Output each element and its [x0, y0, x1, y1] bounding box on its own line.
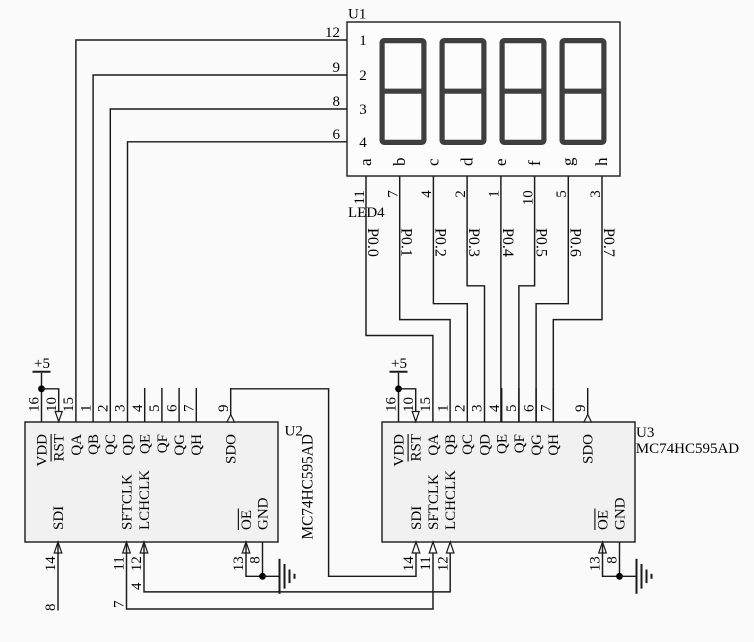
svg-text:LED4: LED4 — [348, 205, 385, 221]
U1 digit 4 glyph — [560, 41, 606, 143]
wire U1.f to U3.QF (net P0.5) — [519, 176, 535, 422]
svg-text:LCHCLK: LCHCLK — [443, 470, 459, 530]
svg-text:a: a — [356, 158, 375, 166]
U3 SDO output arrow — [584, 415, 591, 423]
svg-text:4: 4 — [359, 135, 367, 151]
svg-text:10: 10 — [44, 397, 60, 412]
wire +5 to U3.VDD — [398, 389, 400, 422]
svg-text:QA: QA — [426, 434, 442, 456]
svg-text:g: g — [559, 157, 578, 166]
svg-text:10: 10 — [401, 397, 417, 412]
svg-text:QF: QF — [512, 434, 528, 453]
shift register U2 body — [25, 422, 278, 542]
svg-text:QC: QC — [460, 434, 476, 455]
svg-text:7: 7 — [539, 404, 555, 412]
svg-text:1: 1 — [359, 33, 367, 49]
wire U1.b to U3.QB (net P0.1) — [400, 176, 450, 422]
svg-text:QE: QE — [495, 434, 511, 454]
svg-text:15: 15 — [418, 397, 434, 412]
svg-text:P0.7: P0.7 — [600, 228, 617, 257]
U2 OE input arrow — [242, 542, 250, 553]
svg-text:U1: U1 — [348, 7, 366, 23]
wire U2.QC to U1.3 — [110, 109, 347, 422]
U3 pin SDO stub — [587, 388, 589, 415]
wire U2.QB to U1.2 — [93, 75, 347, 422]
svg-text:QF: QF — [155, 434, 171, 453]
svg-text:1: 1 — [78, 405, 94, 413]
svg-text:SFTCLK: SFTCLK — [119, 474, 135, 530]
U3 OE input arrow — [599, 542, 607, 553]
svg-text:VDD: VDD — [391, 434, 407, 467]
svg-text:RST: RST — [409, 434, 425, 462]
svg-text:QE: QE — [138, 434, 154, 454]
wire U2.SFTCLK to U3.SFTCLK (net 7) — [127, 542, 434, 609]
svg-text:GND: GND — [612, 497, 628, 530]
svg-text:2: 2 — [96, 405, 112, 413]
U1 digit 1 glyph — [380, 41, 426, 143]
U2 LCHCLK input arrow — [140, 542, 148, 553]
svg-text:QG: QG — [529, 434, 545, 456]
svg-text:16: 16 — [27, 397, 43, 413]
U2 pin QH stub — [195, 388, 197, 422]
svg-text:4: 4 — [487, 404, 503, 412]
svg-text:6: 6 — [333, 127, 341, 143]
wire U2.QA to U1.1 — [76, 40, 347, 422]
svg-text:U3: U3 — [636, 425, 654, 441]
display U1 body — [347, 22, 620, 176]
wire U2.QD to U1.4 — [128, 142, 348, 422]
svg-text:1: 1 — [435, 405, 451, 413]
U3 pin QG stub — [535, 388, 537, 422]
wire +5 to U3.RST — [399, 389, 416, 422]
wire U1.e to U3.QE (net P0.4) — [500, 176, 502, 422]
wire U1.a to U3.QA (net P0.0) — [366, 176, 433, 422]
junction OE/GND (U2) — [259, 573, 266, 580]
svg-text:b: b — [390, 158, 409, 167]
svg-text:11: 11 — [112, 556, 128, 570]
svg-text:SDI: SDI — [51, 506, 67, 530]
svg-text:14: 14 — [43, 556, 59, 572]
svg-text:12: 12 — [129, 556, 145, 571]
svg-text:8: 8 — [333, 94, 341, 110]
svg-text:OE: OE — [595, 510, 611, 530]
svg-text:OE: OE — [239, 510, 255, 530]
U3 RST input arrow — [412, 412, 419, 422]
svg-text:11: 11 — [418, 556, 434, 570]
svg-text:QB: QB — [443, 434, 459, 455]
svg-text:SDO: SDO — [581, 434, 597, 464]
svg-text:12: 12 — [435, 556, 451, 571]
junction +5/U3 — [395, 385, 402, 392]
svg-text:3: 3 — [113, 405, 129, 413]
svg-text:5: 5 — [147, 405, 163, 413]
svg-text:RST: RST — [52, 434, 68, 462]
svg-text:2: 2 — [359, 68, 367, 84]
svg-text:f: f — [525, 160, 544, 166]
wire U2.GND to ground — [262, 542, 264, 576]
U1 digit 3 glyph — [500, 41, 546, 143]
shift register U3 body — [382, 422, 635, 542]
U2 SDO output arrow — [227, 415, 234, 423]
U3 pin OE name — [595, 509, 612, 531]
svg-text:9: 9 — [216, 405, 232, 413]
svg-text:9: 9 — [573, 405, 589, 413]
wire U1.h to U3.QH (net P0.7) — [553, 176, 602, 422]
svg-text:MC74HC595AD: MC74HC595AD — [300, 434, 317, 539]
svg-text:15: 15 — [61, 397, 77, 412]
U3 pin QH stub — [552, 388, 554, 422]
svg-text:+5: +5 — [34, 356, 50, 372]
svg-text:9: 9 — [333, 60, 341, 76]
svg-text:7: 7 — [182, 404, 198, 412]
junction OE/GND (U3) — [616, 573, 623, 580]
svg-text:VDD: VDD — [34, 434, 50, 467]
svg-text:3: 3 — [359, 102, 367, 118]
svg-text:P0.0: P0.0 — [364, 228, 381, 257]
svg-text:16: 16 — [384, 397, 400, 413]
svg-text:8: 8 — [605, 556, 621, 564]
svg-text:12: 12 — [325, 25, 340, 41]
svg-text:QD: QD — [477, 434, 493, 456]
svg-text:6: 6 — [521, 404, 537, 412]
svg-text:QB: QB — [86, 434, 102, 455]
U3 pin RST name — [408, 434, 425, 462]
svg-text:P0.6: P0.6 — [566, 228, 583, 257]
U2 pin RST name — [51, 434, 68, 462]
svg-text:+5: +5 — [391, 356, 407, 372]
U2 pin SDO stub — [230, 388, 232, 415]
svg-text:13: 13 — [231, 556, 247, 571]
svg-text:LCHCLK: LCHCLK — [137, 470, 153, 530]
wire U1.d to U3.QD (net P0.3) — [467, 176, 484, 422]
svg-text:d: d — [457, 157, 476, 166]
power +5 supply (U3) — [390, 356, 408, 389]
wire +5 to U2.RST — [42, 389, 59, 422]
U2 SFTCLK input arrow — [123, 542, 131, 553]
U3 LCHCLK input arrow — [446, 542, 454, 553]
svg-text:QC: QC — [103, 434, 119, 455]
svg-text:P0.4: P0.4 — [499, 228, 516, 257]
svg-text:QG: QG — [172, 434, 188, 456]
svg-text:e: e — [491, 158, 510, 166]
wire U2.SDO to U3.SDI — [231, 389, 416, 577]
svg-text:GND: GND — [255, 497, 271, 530]
U2 RST input arrow — [55, 412, 62, 422]
svg-text:4: 4 — [130, 404, 146, 412]
svg-text:4: 4 — [129, 582, 145, 590]
U2 pin OE name — [238, 509, 255, 531]
U3 pin QE stub — [501, 388, 503, 422]
svg-text:QA: QA — [69, 434, 85, 456]
svg-text:QD: QD — [120, 434, 136, 456]
wire U2.SDI off-page (net 8) — [57, 542, 59, 611]
ground symbol (U3) — [620, 559, 652, 594]
wire U2.LCHCLK to U3.LCHCLK (net 4) — [144, 542, 450, 592]
svg-text:P0.3: P0.3 — [465, 228, 482, 257]
U2 SDI input arrow — [54, 542, 62, 553]
svg-text:P0.1: P0.1 — [398, 228, 415, 257]
U3 SFTCLK input arrow — [429, 542, 437, 553]
junction +5/U2 — [38, 385, 45, 392]
svg-text:5: 5 — [504, 405, 520, 413]
svg-text:8: 8 — [248, 556, 264, 564]
svg-text:SDO: SDO — [224, 434, 240, 464]
wire U3.OE to ground — [603, 542, 620, 576]
svg-text:3: 3 — [470, 405, 486, 413]
U2 pin QG stub — [178, 388, 180, 422]
svg-text:6: 6 — [164, 404, 180, 412]
wire U3.GND to ground — [619, 542, 621, 576]
svg-text:2: 2 — [453, 405, 469, 413]
svg-text:SDI: SDI — [409, 506, 425, 530]
U1 digit 2 glyph — [440, 41, 486, 143]
ground symbol (U2) — [263, 559, 295, 594]
wire U1.g to U3.QG (net P0.6) — [536, 176, 568, 422]
wire U1.c to U3.QC (net P0.2) — [433, 176, 467, 422]
svg-text:7: 7 — [112, 600, 128, 608]
svg-text:13: 13 — [588, 556, 604, 571]
svg-text:P0.5: P0.5 — [533, 228, 550, 257]
U2 pin QE stub — [144, 388, 146, 422]
svg-text:14: 14 — [401, 556, 417, 572]
U2 pin QF stub — [161, 388, 163, 422]
U3 pin QF stub — [518, 388, 520, 422]
svg-text:8: 8 — [43, 604, 59, 612]
svg-text:QH: QH — [189, 434, 205, 456]
svg-text:QH: QH — [546, 434, 562, 456]
svg-text:SFTCLK: SFTCLK — [426, 474, 442, 530]
svg-text:h: h — [592, 157, 611, 166]
wire +5 to U2.VDD — [41, 389, 43, 422]
svg-text:P0.2: P0.2 — [431, 228, 448, 257]
wire U2.OE to ground — [246, 542, 263, 576]
svg-text:MC74HC595AD: MC74HC595AD — [636, 441, 740, 457]
U3 SDI input arrow — [412, 542, 420, 553]
svg-text:c: c — [424, 158, 443, 166]
power +5 supply (U2) — [33, 356, 51, 389]
